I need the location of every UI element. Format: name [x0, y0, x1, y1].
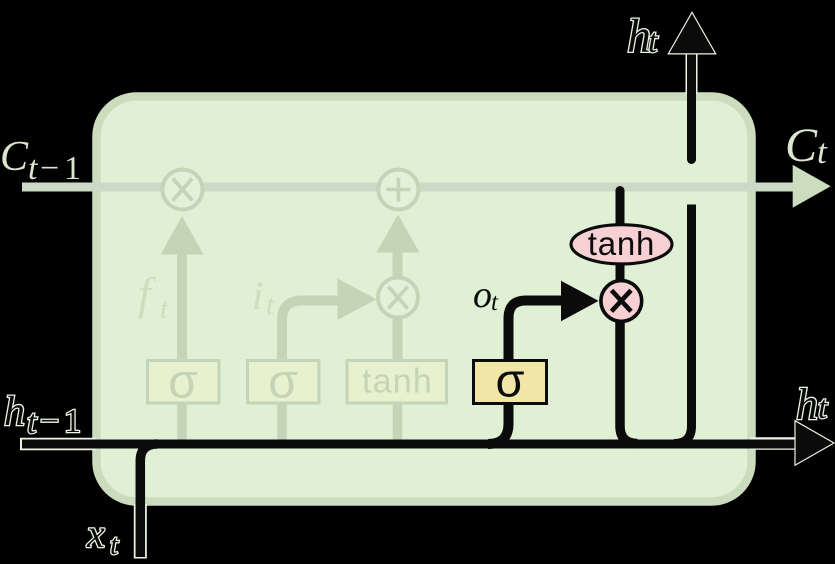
svg-text:tanh: tanh — [362, 363, 433, 401]
svg-text:h: h — [4, 389, 25, 435]
svg-text:t: t — [27, 404, 38, 441]
svg-text:o: o — [473, 274, 492, 316]
svg-text:σ: σ — [495, 354, 524, 407]
svg-text:t: t — [110, 529, 119, 561]
svg-text:t: t — [28, 150, 39, 187]
svg-text:C: C — [0, 134, 29, 180]
svg-text:σ: σ — [168, 356, 198, 409]
svg-text:−: − — [40, 403, 59, 440]
svg-text:h: h — [796, 380, 818, 429]
svg-text:−: − — [40, 150, 59, 187]
svg-text:tanh: tanh — [588, 225, 655, 262]
svg-text:σ: σ — [268, 356, 298, 409]
svg-text:t: t — [266, 289, 275, 321]
svg-text:1: 1 — [64, 403, 81, 440]
svg-text:C: C — [785, 119, 818, 172]
svg-text:t: t — [818, 390, 828, 426]
svg-text:t: t — [648, 23, 659, 60]
svg-text:i: i — [252, 273, 263, 318]
svg-text:t: t — [160, 293, 169, 325]
svg-text:x: x — [86, 511, 105, 556]
svg-text:t: t — [491, 289, 499, 316]
svg-text:t: t — [817, 132, 828, 171]
svg-text:1: 1 — [64, 150, 81, 187]
